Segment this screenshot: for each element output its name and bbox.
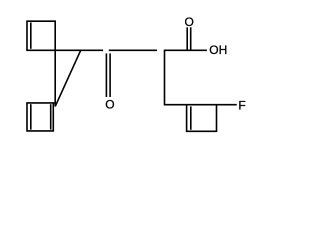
carboxyl C=O double bond lines — [186, 27, 188, 50]
double bond inner line of top-left ring — [30, 23, 32, 49]
ketone C=O double bond lines — [105, 53, 107, 97]
wire: main chain segment C — [164, 49, 207, 51]
svg-text:O: O — [105, 97, 114, 111]
fluoro-cyclobutene ring bottom-right: left, bottom, right edges — [187, 105, 217, 132]
wire: main chain segment A (includes bottom edge of top-left ring) — [26, 49, 103, 51]
double bond inner-left line of bottom-left ring — [30, 104, 32, 129]
cyclobutadiene ring bottom-left: outline — [27, 103, 56, 131]
cyclopropane ring: vertical edge and diagonal edge — [55, 50, 80, 107]
svg-text:F: F — [238, 98, 245, 112]
double bond inner line of bottom-right ring — [190, 106, 192, 129]
svg-text:OH: OH — [209, 43, 227, 57]
svg-text:O: O — [185, 15, 194, 29]
cyclobutene ring top-left: top, left, right edges — [27, 21, 55, 50]
wire: lower chain to F — [164, 104, 237, 106]
chemical structure diagram — [0, 0, 276, 151]
wire: main chain segment B — [109, 49, 157, 51]
double bond inner-right line of bottom-left ring — [50, 104, 52, 129]
wire: vertical leg to lower chain — [164, 50, 166, 104]
